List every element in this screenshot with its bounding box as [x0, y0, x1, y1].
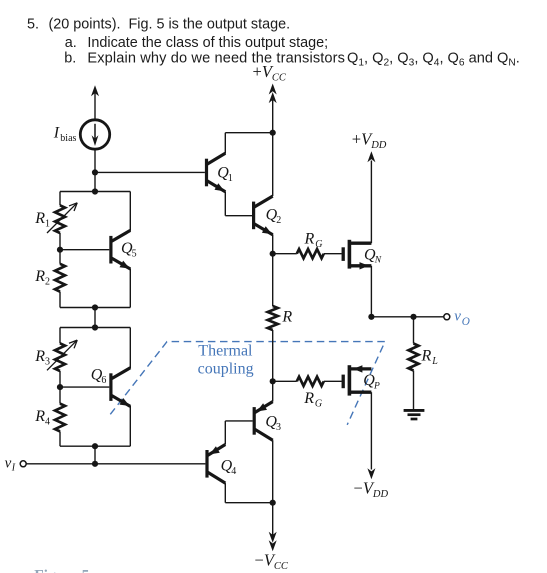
svg-text:2: 2: [45, 277, 50, 288]
svg-text:I: I: [11, 463, 16, 474]
svg-text:Indicate the class of this out: Indicate the class of this output stage;: [87, 35, 328, 51]
svg-text:v: v: [5, 455, 12, 471]
svg-text:Q1​, Q2​, Q3​, Q4​, Q6​ and QN: Q1​, Q2​, Q3​, Q4​, Q6​ and QN​.: [347, 51, 520, 69]
svg-text:R: R: [304, 230, 315, 247]
svg-text:G: G: [315, 239, 322, 250]
svg-text:coupling: coupling: [198, 360, 254, 377]
svg-text:5: 5: [132, 249, 137, 260]
svg-text:1: 1: [228, 173, 233, 184]
svg-text:G: G: [315, 399, 322, 410]
svg-text:Figure 5: Figure 5: [34, 568, 89, 573]
svg-text:R: R: [34, 268, 45, 285]
svg-text:a.: a.: [65, 35, 77, 51]
svg-text:2: 2: [276, 215, 281, 226]
svg-text:5.: 5.: [27, 17, 39, 33]
svg-text:N: N: [374, 256, 382, 266]
svg-text:b.: b.: [64, 51, 76, 67]
svg-text:6: 6: [101, 375, 106, 386]
svg-text:R: R: [34, 210, 45, 227]
svg-text:4: 4: [45, 417, 50, 428]
svg-text:+VDD: +VDD: [352, 130, 387, 152]
svg-text:4: 4: [231, 466, 236, 477]
svg-text:R: R: [281, 309, 292, 326]
svg-text:R: R: [303, 390, 314, 407]
svg-text:bias: bias: [60, 133, 76, 144]
svg-text:1: 1: [45, 218, 50, 229]
svg-text:R: R: [34, 408, 45, 425]
svg-text:3: 3: [276, 422, 281, 433]
svg-text:−VCC: −VCC: [255, 551, 289, 573]
svg-text:R: R: [34, 348, 45, 365]
svg-text:Explain why do we need the tra: Explain why do we need the transistors: [87, 51, 345, 67]
svg-text:(20 points). Fig. 5 is the ou: (20 points). Fig. 5 is the output stage.: [49, 17, 291, 33]
svg-text:O: O: [462, 316, 470, 328]
svg-text:L: L: [431, 356, 438, 367]
svg-text:−VDD: −VDD: [354, 479, 389, 501]
svg-text:P: P: [373, 381, 380, 391]
svg-text:v: v: [454, 309, 461, 325]
svg-text:I: I: [53, 125, 60, 142]
svg-text:R: R: [421, 347, 432, 364]
svg-text:3: 3: [45, 357, 50, 368]
svg-text:Thermal: Thermal: [198, 342, 253, 359]
